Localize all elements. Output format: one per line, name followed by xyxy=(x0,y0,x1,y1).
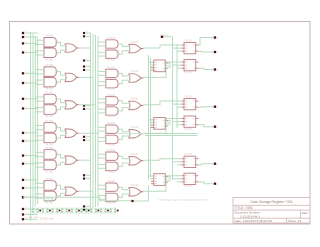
svg-text:74LS74: 74LS74 xyxy=(184,186,193,188)
svg-text:74LS32: 74LS32 xyxy=(130,99,139,101)
svg-text:74LS08: 74LS08 xyxy=(45,93,54,95)
svg-text:74LS08: 74LS08 xyxy=(45,36,54,38)
svg-text:74LS74: 74LS74 xyxy=(184,129,193,131)
svg-text:74LS08: 74LS08 xyxy=(45,65,54,67)
svg-text:74LS08: 74LS08 xyxy=(107,59,116,61)
svg-text:74LS08: 74LS08 xyxy=(107,95,116,97)
svg-text:74LS32: 74LS32 xyxy=(130,71,139,73)
svg-text:74LS32: 74LS32 xyxy=(130,154,139,156)
svg-text:C1-C9 0.1uF: C1-C9 0.1uF xyxy=(40,217,54,220)
svg-text:Date: 1/30/2014 5:08:42 PM: Date: 1/30/2014 5:08:42 PM xyxy=(235,219,273,223)
svg-text:74LS08: 74LS08 xyxy=(45,203,54,205)
svg-text:GND: GND xyxy=(45,200,50,202)
svg-text:Q: Q xyxy=(217,38,219,40)
svg-text:Gate Storage Register 7494: Gate Storage Register 7494 xyxy=(250,200,292,204)
svg-text:Q: Q xyxy=(217,107,219,109)
svg-text:74LS74: 74LS74 xyxy=(184,72,193,74)
svg-text:74LS08: 74LS08 xyxy=(107,172,116,174)
svg-text:74LS74: 74LS74 xyxy=(184,96,193,98)
svg-text:* 0.1uF bypass caps on all pow: * 0.1uF bypass caps on all power pins cl… xyxy=(158,198,209,201)
svg-text:74LS08: 74LS08 xyxy=(107,116,116,118)
svg-text:Q: Q xyxy=(217,70,219,72)
svg-text:74LS08: 74LS08 xyxy=(107,67,116,69)
svg-text:2-23-2014-W-1: 2-23-2014-W-1 xyxy=(240,214,260,218)
svg-text:GND GND: GND GND xyxy=(29,217,39,219)
svg-text:74LS08: 74LS08 xyxy=(45,116,54,118)
svg-text:74LS08: 74LS08 xyxy=(45,172,54,174)
svg-text:74LS08: 74LS08 xyxy=(107,203,116,205)
svg-text:Q: Q xyxy=(217,184,219,186)
svg-text:74LS08: 74LS08 xyxy=(107,145,116,147)
svg-text:Q: Q xyxy=(217,127,219,129)
svg-text:74LS08: 74LS08 xyxy=(107,123,116,125)
svg-text:74LS08: 74LS08 xyxy=(107,89,116,91)
svg-text:74LS74: 74LS74 xyxy=(184,40,193,42)
svg-text:TITLE: 7494: TITLE: 7494 xyxy=(235,206,253,210)
svg-text:74LS08: 74LS08 xyxy=(45,148,54,150)
svg-text:74LS08: 74LS08 xyxy=(45,145,54,147)
svg-text:74LS08: 74LS08 xyxy=(45,59,54,61)
svg-text:74LS08: 74LS08 xyxy=(107,38,116,40)
svg-text:Sheet: 1/1: Sheet: 1/1 xyxy=(288,219,302,223)
svg-text:74LS08: 74LS08 xyxy=(107,150,116,152)
svg-text:74LS74: 74LS74 xyxy=(184,154,193,156)
svg-text:74LS32: 74LS32 xyxy=(130,42,139,44)
svg-text:74LS08: 74LS08 xyxy=(45,179,54,181)
svg-text:74LS32: 74LS32 xyxy=(130,127,139,129)
svg-text:REV:: REV: xyxy=(302,211,309,215)
svg-text:74LS08: 74LS08 xyxy=(45,89,54,91)
svg-text:Q: Q xyxy=(217,164,219,166)
svg-text:Q: Q xyxy=(217,52,219,54)
svg-text:74LS08: 74LS08 xyxy=(107,181,116,183)
svg-text:74LS08: 74LS08 xyxy=(45,121,54,123)
svg-text:74LS32: 74LS32 xyxy=(130,185,139,187)
